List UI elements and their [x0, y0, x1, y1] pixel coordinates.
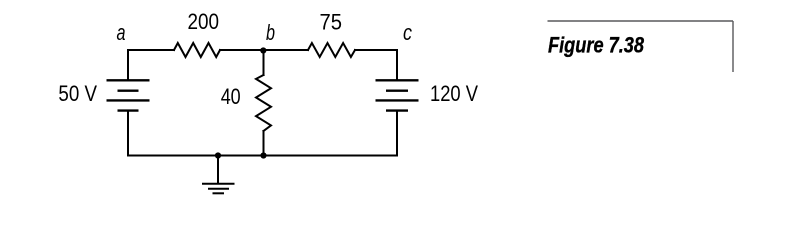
svg-text:200: 200 — [188, 9, 220, 34]
svg-text:120 V: 120 V — [430, 81, 478, 106]
svg-text:75: 75 — [320, 10, 343, 35]
svg-text:40: 40 — [221, 84, 241, 109]
svg-text:a: a — [117, 20, 126, 45]
svg-text:b: b — [266, 20, 275, 45]
svg-text:Figure 7.38: Figure 7.38 — [548, 33, 644, 58]
svg-text:c: c — [403, 20, 412, 45]
svg-text:50 V: 50 V — [58, 81, 97, 106]
